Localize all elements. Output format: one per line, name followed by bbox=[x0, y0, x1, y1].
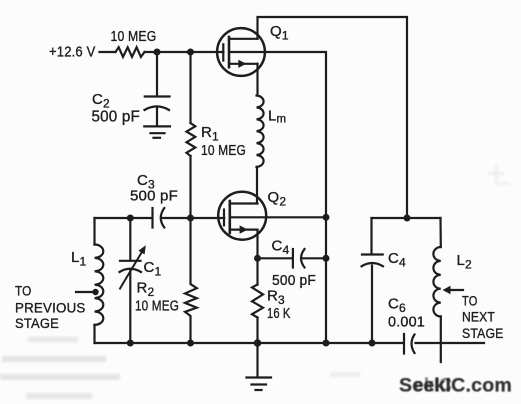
wire Q1 source down to Lm bbox=[256, 64, 258, 96]
wire C3 to Q2 gate bbox=[163, 217, 225, 219]
wire Q2 source down bbox=[256, 230, 258, 285]
ground C2 bbox=[144, 126, 170, 137]
node R1-R2 gate junction bbox=[187, 215, 194, 222]
svg-text:500 pF: 500 pF bbox=[92, 109, 141, 126]
node R3 bottom bbox=[254, 339, 262, 347]
svg-text:TO: TO bbox=[15, 284, 32, 299]
node supply-C2 junction bbox=[154, 49, 161, 56]
svg-text:16 K: 16 K bbox=[267, 306, 291, 322]
svg-text:+12.6 V: +12.6 V bbox=[49, 44, 96, 61]
wire supply stub bbox=[100, 51, 116, 53]
wire Q1 drain to top rail, across and down to output tank bbox=[258, 17, 408, 218]
node C4 right junction bbox=[323, 255, 330, 262]
svg-text:500 pF: 500 pF bbox=[272, 272, 316, 289]
wire C4 right lead bbox=[303, 257, 326, 259]
svg-text:0.001: 0.001 bbox=[388, 315, 425, 331]
transistor Q2 bbox=[218, 192, 266, 240]
wire supply rail to Q1 gate bbox=[145, 51, 224, 53]
svg-text:STAGE: STAGE bbox=[462, 325, 504, 341]
wire tank top left segment bbox=[95, 217, 152, 219]
svg-text:TO: TO bbox=[462, 293, 478, 309]
wire left tank vertical bottom bbox=[93, 325, 95, 343]
wire Q1 source-right branch down to node A bbox=[265, 52, 326, 217]
wire C2 branch bbox=[156, 52, 158, 96]
wire C4 left lead bbox=[258, 257, 293, 259]
wire bottom rail right of C6 bbox=[416, 342, 485, 344]
node L1 tap bbox=[92, 289, 98, 295]
watermark SeekIC.com bbox=[399, 375, 512, 397]
node A (Q1 source / Q2 drain-side junction) bbox=[323, 214, 330, 221]
wire R3 bottom bbox=[256, 318, 258, 344]
wire R1 branch top bbox=[189, 52, 191, 123]
wire L1 tap bbox=[76, 291, 95, 293]
wire C1 branch top bbox=[129, 218, 131, 260]
node R2 bottom bbox=[187, 340, 194, 347]
wire bottom rail bbox=[95, 342, 404, 344]
wire Lm to Q2 drain bbox=[256, 167, 258, 204]
svg-text:NEXT: NEXT bbox=[462, 309, 495, 325]
node C4 tank bottom bbox=[369, 340, 376, 347]
resistor R2 bbox=[185, 218, 197, 343]
ground main bbox=[247, 343, 272, 390]
capacitor C4 coupling bbox=[293, 249, 305, 268]
wire C4 tank top lead bbox=[370, 218, 372, 254]
label TO PREVIOUS STAGE bbox=[15, 284, 86, 331]
L2 tap arrow bbox=[443, 286, 464, 295]
wire C4 tank bottom lead bbox=[371, 266, 373, 344]
svg-text:PREVIOUS: PREVIOUS bbox=[15, 300, 86, 315]
wire node A down to bottom rail bbox=[325, 217, 327, 343]
capacitor C6 bbox=[404, 334, 415, 354]
svg-text:ekIC: ekIC bbox=[414, 375, 452, 395]
wire left tank vertical top bbox=[93, 218, 95, 245]
resistor R3 bbox=[252, 285, 263, 318]
capacitor C4 tank bbox=[362, 255, 384, 267]
capacitor C1 variable bbox=[120, 245, 146, 288]
resistor R1 bbox=[187, 123, 196, 156]
transistor Q1 bbox=[217, 28, 265, 76]
capacitor C2 bbox=[145, 97, 170, 127]
node output tank top bbox=[404, 215, 411, 222]
wire L2 bottom lead crossing bottom rail bbox=[440, 317, 442, 363]
wire C1 branch bottom bbox=[129, 271, 131, 343]
capacitor C3 bbox=[153, 208, 165, 228]
node x326 bottom bbox=[323, 340, 330, 347]
wire R1 to Q2 gate line bbox=[189, 156, 191, 218]
svg-text:STAGE: STAGE bbox=[15, 316, 59, 331]
node supply-R1 junction bbox=[187, 49, 194, 56]
inductor Lm bbox=[257, 96, 264, 167]
svg-text:10 MEG: 10 MEG bbox=[135, 299, 179, 315]
wire L2 top lead bbox=[439, 218, 441, 247]
svg-text:10 MEG: 10 MEG bbox=[201, 143, 246, 159]
inductor L1 bbox=[95, 245, 104, 325]
label TO NEXT STAGE bbox=[462, 293, 504, 341]
inductor L2 bbox=[433, 247, 440, 317]
node Q2 source / C4 junction bbox=[254, 255, 261, 262]
resistor 10 MEG supply feed bbox=[116, 47, 145, 57]
wire output tank top bbox=[372, 217, 441, 219]
svg-text:500 pF: 500 pF bbox=[130, 188, 178, 205]
svg-text:10 MEG: 10 MEG bbox=[111, 28, 157, 45]
wire Q2 source-right to node A bbox=[266, 216, 326, 218]
node C1 bottom bbox=[127, 340, 134, 347]
node C1 branch junction bbox=[127, 215, 134, 222]
